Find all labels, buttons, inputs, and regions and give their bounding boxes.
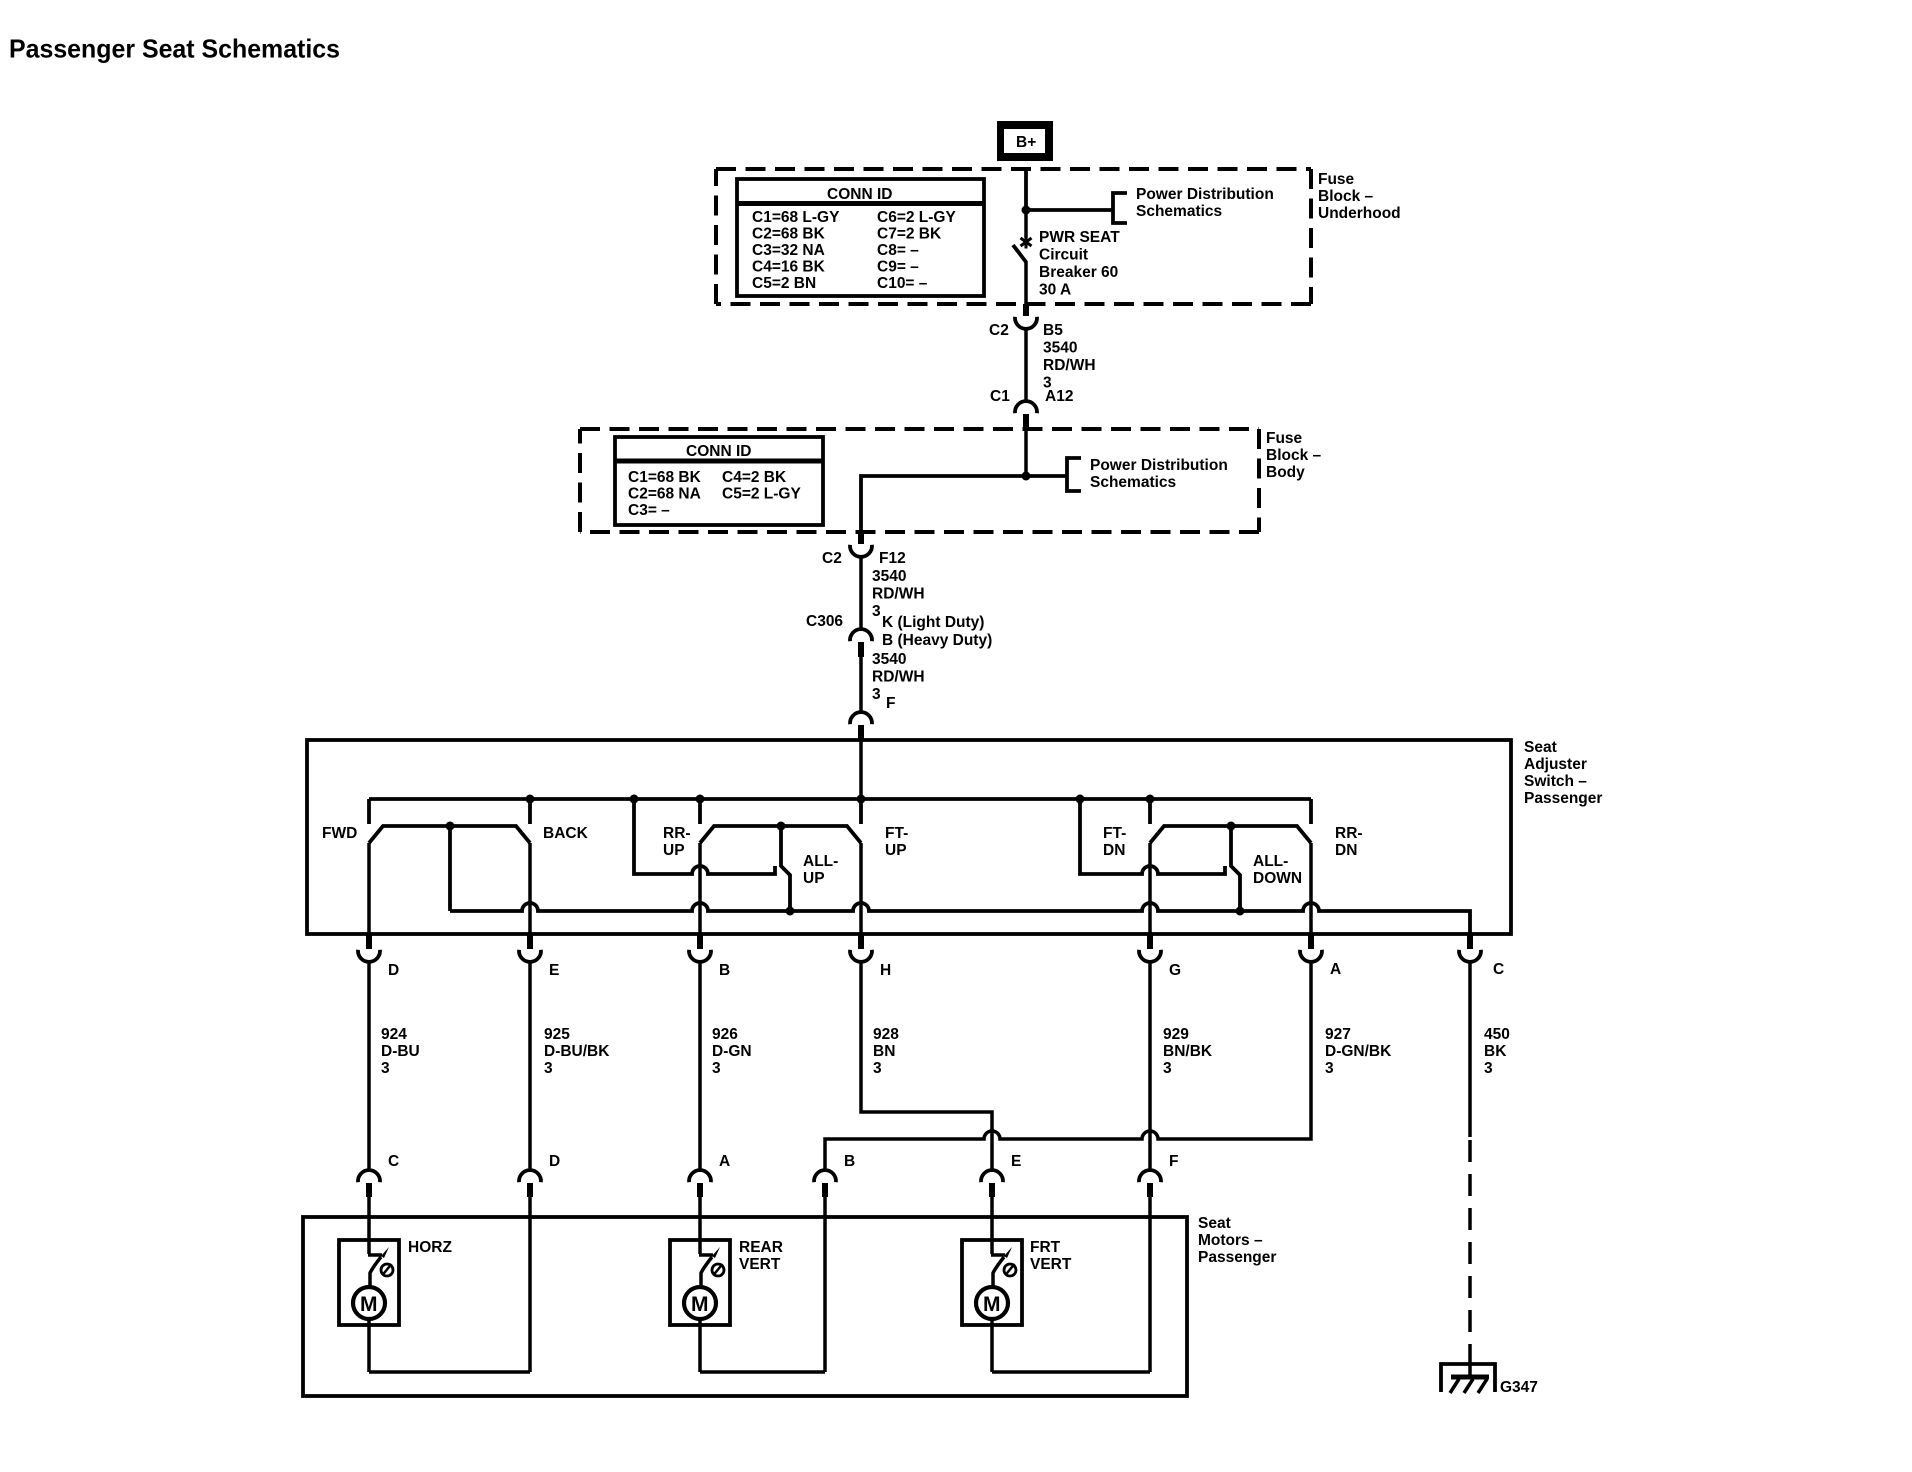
feed wire F into switch box [859, 740, 863, 799]
svg-text:A: A [1330, 961, 1341, 978]
svg-text:BACK: BACK [543, 825, 589, 842]
svg-text:B: B [719, 962, 730, 979]
svg-text:M: M [360, 1293, 378, 1316]
svg-text:D-GN: D-GN [712, 1043, 752, 1060]
svg-text:C9= –: C9= – [877, 259, 919, 276]
motor assembly HORZ case [339, 1239, 452, 1325]
RR-UP ALL-UP FT-UP switch blade [700, 826, 861, 843]
svg-text:3: 3 [872, 603, 881, 620]
svg-text:D-GN/BK: D-GN/BK [1325, 1043, 1392, 1060]
svg-text:VERT: VERT [1030, 1256, 1072, 1273]
svg-text:A12: A12 [1045, 388, 1073, 405]
wire HORZ motor return loop [369, 1319, 530, 1372]
svg-text:Passenger Seat Schematics: Passenger Seat Schematics [9, 34, 340, 64]
svg-text:C4=2 BK: C4=2 BK [722, 469, 787, 486]
seat adjuster switch box [307, 740, 1511, 934]
svg-text:3540: 3540 [872, 568, 906, 585]
thermal circuit breaker HORZ [368, 1247, 393, 1287]
svg-text:C2: C2 [989, 322, 1009, 339]
svg-text:3: 3 [544, 1060, 553, 1077]
wire REAR VERT motor return loop [700, 1319, 825, 1372]
fixed contact stub FWD [367, 799, 371, 824]
connector pin F motor [1139, 1153, 1178, 1197]
svg-text:C4=16 BK: C4=16 BK [752, 259, 826, 276]
connector pin E motor [981, 1153, 1021, 1197]
junction dot power distribution branch [1022, 206, 1031, 215]
svg-text:VERT: VERT [739, 1256, 781, 1273]
svg-text:Motors –: Motors – [1198, 1232, 1263, 1249]
svg-text:B: B [844, 1153, 855, 1170]
svg-text:FWD: FWD [322, 825, 357, 842]
bracket power distribution schematics (body) [1067, 458, 1081, 491]
motor assembly REAR VERT case [670, 1239, 783, 1325]
wire 3540 RD/WH segment 2 [859, 557, 863, 629]
svg-text:M: M [983, 1293, 1001, 1316]
wire G to motor F [1148, 962, 1152, 1170]
svg-text:450: 450 [1484, 1026, 1510, 1043]
fuse block underhood dashed box [716, 169, 1311, 304]
wire output G inside switch [1148, 843, 1152, 934]
svg-text:Seat: Seat [1198, 1215, 1231, 1232]
wire B to motor A [698, 962, 702, 1170]
svg-text:Passenger: Passenger [1198, 1249, 1276, 1266]
connector pin B motor [814, 1153, 855, 1197]
connector C2 F12 (type A) [850, 532, 872, 557]
svg-text:Fuse: Fuse [1266, 430, 1303, 447]
svg-text:E: E [1011, 1153, 1021, 1170]
wire pin A to REAR VERT breaker [698, 1197, 702, 1254]
wire E to motor D [528, 962, 532, 1170]
svg-text:Circuit: Circuit [1039, 247, 1088, 264]
connector pin G switch [1139, 934, 1181, 979]
svg-text:Fuse: Fuse [1318, 171, 1355, 188]
svg-text:C1=68 L-GY: C1=68 L-GY [752, 209, 840, 226]
svg-text:Adjuster: Adjuster [1524, 756, 1587, 773]
svg-text:3540: 3540 [1043, 340, 1077, 357]
switch common bottom line [450, 903, 1470, 934]
wire to power distribution bracket [1026, 208, 1113, 212]
svg-text:C: C [1493, 961, 1504, 978]
junction dot bus at RR-UP branch [630, 795, 639, 804]
wire output H inside switch [859, 843, 863, 934]
wire output E inside switch [528, 843, 532, 934]
svg-text:REAR: REAR [739, 1239, 783, 1256]
svg-text:D: D [549, 1153, 560, 1170]
junction dot bus at RR-UP contact [696, 795, 705, 804]
svg-text:C: C [388, 1153, 399, 1170]
wire pin B to REAR VERT motor return [823, 1197, 827, 1372]
connector row 2: C D A B E F (type B) [358, 1153, 1178, 1197]
svg-text:FT-: FT- [885, 825, 908, 842]
connector C2 B5 (type A) [1015, 304, 1037, 329]
svg-text:C8= –: C8= – [877, 242, 919, 259]
svg-text:BN: BN [873, 1043, 895, 1060]
wire pin D to HORZ motor return [528, 1197, 532, 1372]
junction dot bus at FT-DN contact [1146, 795, 1155, 804]
svg-text:C10= –: C10= – [877, 275, 928, 292]
svg-text:926: 926 [712, 1026, 738, 1043]
svg-text:924: 924 [381, 1026, 407, 1043]
svg-text:Schematics: Schematics [1090, 474, 1176, 491]
ground wire C dashed [1468, 962, 1472, 1137]
wire breaker to box edge [1024, 261, 1028, 304]
junction dot bus at FT-DN branch [1076, 795, 1085, 804]
svg-text:Block –: Block – [1318, 188, 1374, 205]
horizontal wire to bracket and corner down [861, 476, 1067, 531]
svg-text:C1=68 BK: C1=68 BK [628, 469, 702, 486]
fixed contact stub FT-UP [859, 799, 863, 824]
svg-text:C5=2 BN: C5=2 BN [752, 275, 816, 292]
svg-text:Power Distribution: Power Distribution [1090, 457, 1228, 474]
svg-text:Schematics: Schematics [1136, 203, 1222, 220]
fuse block underhood label [1318, 171, 1401, 222]
wire A to motor B with jog [825, 962, 1311, 1170]
fixed contact stub RR-UP [698, 799, 702, 824]
svg-text:K (Light Duty): K (Light Duty) [882, 614, 984, 631]
connector pin E switch [519, 934, 559, 979]
connector pin C motor [358, 1153, 399, 1197]
svg-text:D: D [388, 962, 399, 979]
svg-text:Underhood: Underhood [1318, 205, 1401, 222]
svg-text:C306: C306 [806, 613, 843, 630]
svg-text:CONN ID: CONN ID [686, 443, 751, 460]
svg-text:C2: C2 [822, 550, 842, 567]
svg-text:F12: F12 [879, 550, 906, 567]
svg-text:C3=32 NA: C3=32 NA [752, 242, 825, 259]
fixed contact stub RR-DN [1309, 799, 1313, 824]
connector pin D motor [519, 1153, 560, 1197]
connector pin A motor [689, 1153, 730, 1197]
wire output B inside switch [698, 843, 702, 934]
fixed contact stub BACK [528, 799, 532, 824]
wire pin C to HORZ breaker [367, 1197, 371, 1254]
svg-text:B (Heavy Duty): B (Heavy Duty) [882, 632, 992, 649]
svg-text:E: E [549, 962, 559, 979]
wire junction to breaker [1024, 210, 1028, 238]
svg-text:30 A: 30 A [1039, 282, 1071, 299]
svg-text:H: H [880, 962, 891, 979]
svg-text:DN: DN [1103, 842, 1125, 859]
wire H to motor E with jog [861, 962, 992, 1170]
svg-text:RD/WH: RD/WH [1043, 357, 1096, 374]
switch feed bus [369, 797, 1311, 801]
svg-text:HORZ: HORZ [408, 1239, 452, 1256]
svg-text:G347: G347 [1500, 1379, 1538, 1396]
connector pin A switch [1300, 934, 1341, 978]
svg-text:C2=68 NA: C2=68 NA [628, 486, 701, 503]
svg-text:PWR SEAT: PWR SEAT [1039, 229, 1120, 246]
svg-text:BN/BK: BN/BK [1163, 1043, 1213, 1060]
svg-text:Switch –: Switch – [1524, 773, 1587, 790]
wire 3540 RD/WH segment 1 [1024, 329, 1028, 401]
svg-text:3: 3 [872, 686, 881, 703]
svg-text:Power Distribution: Power Distribution [1136, 186, 1274, 203]
svg-text:C3= –: C3= – [628, 502, 670, 519]
motor assembly FRT VERT case [962, 1239, 1072, 1325]
bracket power distribution schematics (underhood) [1113, 193, 1127, 223]
svg-text:Block –: Block – [1266, 447, 1322, 464]
FT-DN fixed contact line [1080, 799, 1225, 874]
wire B+ to junction [1024, 170, 1028, 210]
svg-text:3: 3 [1325, 1060, 1334, 1077]
svg-text:B+: B+ [1016, 134, 1036, 151]
svg-text:3: 3 [1163, 1060, 1172, 1077]
FT-DN ALL-DOWN RR-DN switch blade [1150, 826, 1311, 843]
wire pin E to FRT VERT breaker [990, 1197, 994, 1254]
svg-text:A: A [719, 1153, 730, 1170]
svg-text:CONN ID: CONN ID [827, 186, 892, 203]
svg-text:3540: 3540 [872, 651, 906, 668]
svg-text:C7=2 BK: C7=2 BK [877, 226, 942, 243]
svg-text:DN: DN [1335, 842, 1357, 859]
svg-text:927: 927 [1325, 1026, 1351, 1043]
connector pin C switch [1459, 934, 1504, 978]
svg-text:3: 3 [712, 1060, 721, 1077]
wire output D inside switch [367, 843, 371, 934]
svg-text:ALL-: ALL- [803, 853, 838, 870]
svg-text:D-BU/BK: D-BU/BK [544, 1043, 610, 1060]
thermal circuit breaker FRT VERT [991, 1247, 1016, 1287]
PWR SEAT circuit breaker [1013, 236, 1032, 263]
junction dot bus at BACK contact [526, 795, 535, 804]
svg-text:3: 3 [1484, 1060, 1493, 1077]
svg-text:RR-: RR- [663, 825, 691, 842]
svg-text:UP: UP [803, 870, 825, 887]
fuse block body dashed box [580, 429, 1259, 532]
motor M REAR VERT [684, 1287, 716, 1319]
svg-text:Breaker 60: Breaker 60 [1039, 264, 1118, 281]
junction dot body box [1022, 472, 1031, 481]
svg-text:C5=2 L-GY: C5=2 L-GY [722, 486, 801, 503]
ground G347 [1441, 1364, 1538, 1396]
svg-text:Body: Body [1266, 464, 1305, 481]
seat motors box [303, 1217, 1187, 1396]
svg-text:3: 3 [873, 1060, 882, 1077]
fixed contact stub FT-DN [1148, 799, 1152, 824]
wire pin F to FRT VERT motor return [1148, 1197, 1152, 1372]
svg-text:B5: B5 [1043, 322, 1063, 339]
svg-text:UP: UP [663, 842, 685, 859]
svg-text:UP: UP [885, 842, 907, 859]
svg-text:RD/WH: RD/WH [872, 669, 925, 686]
wire FRT VERT motor return loop [992, 1319, 1150, 1372]
svg-text:929: 929 [1163, 1026, 1189, 1043]
svg-text:C6=2 L-GY: C6=2 L-GY [877, 209, 956, 226]
RR-UP fixed contact line [634, 799, 775, 874]
connector pin B switch [689, 934, 730, 979]
svg-text:F: F [1169, 1153, 1178, 1170]
svg-text:G: G [1169, 962, 1181, 979]
svg-text:DOWN: DOWN [1253, 870, 1302, 887]
motor M FRT VERT [976, 1287, 1008, 1319]
CONN ID table underhood [737, 179, 984, 296]
svg-text:FT-: FT- [1103, 825, 1126, 842]
svg-text:BK: BK [1484, 1043, 1507, 1060]
svg-text:M: M [691, 1293, 709, 1316]
FWD-BACK switch blade [369, 826, 530, 843]
svg-text:Seat: Seat [1524, 739, 1557, 756]
svg-text:F: F [886, 695, 895, 712]
svg-text:FRT: FRT [1030, 1239, 1061, 1256]
svg-text:925: 925 [544, 1026, 570, 1043]
svg-text:RD/WH: RD/WH [872, 586, 925, 603]
wire output A inside switch [1309, 843, 1313, 934]
svg-text:Passenger: Passenger [1524, 790, 1602, 807]
wire D to motor C [367, 962, 371, 1170]
thermal circuit breaker REAR VERT [699, 1247, 724, 1287]
svg-text:ALL-: ALL- [1253, 853, 1288, 870]
svg-text:C1: C1 [990, 388, 1010, 405]
motor M HORZ [353, 1287, 385, 1319]
wire A12 into body box to junction [1024, 430, 1028, 476]
svg-text:C2=68 BK: C2=68 BK [752, 226, 826, 243]
connector row 1: D E B H G A C (type A) [358, 934, 1504, 979]
junction dot bus at F feed [857, 795, 866, 804]
svg-text:RR-: RR- [1335, 825, 1363, 842]
svg-text:928: 928 [873, 1026, 899, 1043]
wire 3540 RD/WH segment 3 [859, 657, 863, 712]
svg-text:3: 3 [381, 1060, 390, 1077]
connector pin H switch [850, 934, 891, 979]
connector pin D switch [358, 934, 399, 979]
CONN ID table body [615, 437, 823, 525]
svg-text:D-BU: D-BU [381, 1043, 420, 1060]
battery B+ terminal [997, 121, 1053, 161]
